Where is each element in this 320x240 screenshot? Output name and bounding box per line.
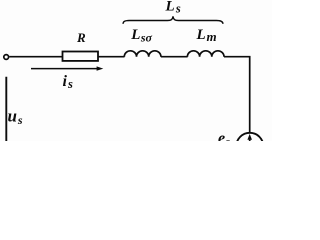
- source es (circle with up arrow): [236, 133, 263, 160]
- wire: [9, 56, 62, 58]
- terminal (input node, open circle): [4, 55, 9, 60]
- svg-text:Ls: Ls: [165, 0, 181, 16]
- left wire down: [5, 77, 7, 141]
- resistor R: [63, 52, 99, 61]
- wire to right corner and down: [224, 57, 250, 133]
- svg-text:Lsσ: Lsσ: [130, 27, 152, 44]
- inductor Lm (magnetizing): [187, 51, 224, 57]
- brace over Ls: [123, 16, 223, 24]
- wire: [161, 56, 188, 58]
- wire: [98, 56, 125, 58]
- inductor Lso (stator leakage): [124, 51, 161, 57]
- svg-text:R: R: [76, 30, 86, 45]
- current arrow is: [31, 68, 98, 70]
- svg-text:Lm: Lm: [196, 27, 217, 44]
